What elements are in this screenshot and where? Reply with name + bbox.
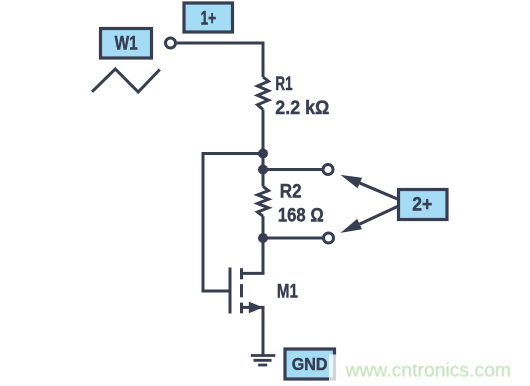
label box W1 (waveform generator) (101, 29, 152, 59)
label box 2+ (scope channel 2) (399, 190, 448, 220)
transistor M1: gate bar (229, 268, 232, 314)
label box 1+ (scope channel 1) (184, 3, 233, 32)
node B junction dot (258, 165, 268, 175)
resistor R1 (258, 77, 269, 110)
svg-text:GND: GND (292, 354, 328, 374)
watermark backing strip (329, 355, 530, 382)
wire: terminal 1+ to top of R1 (177, 43, 263, 77)
svg-text:168 Ω: 168 Ω (278, 204, 324, 226)
arrow: 2+ box to top terminal (360, 183, 398, 199)
waveform symbol (triangle wave) (92, 69, 160, 92)
svg-text:M1: M1 (277, 280, 298, 302)
wire: R2 to node C (262, 216, 265, 238)
svg-text:www.cntronics.com: www.cntronics.com (345, 360, 511, 382)
wire: R1 to node A (262, 110, 265, 154)
ground bar 3 (258, 364, 267, 367)
transistor M1: drain lead (242, 238, 264, 273)
node C junction dot (258, 233, 268, 243)
wire: node A to node B (262, 154, 265, 170)
transistor M1: source arrow (249, 302, 263, 314)
ground label box GND (285, 349, 335, 379)
transistor M1: channel dash 1 (240, 268, 243, 279)
wire: node C to terminal 2- (263, 237, 323, 240)
svg-text:2.2 kΩ: 2.2 kΩ (275, 97, 329, 119)
svg-text:1+: 1+ (201, 7, 217, 29)
terminal 2+ (top scope probe, open circle) (323, 165, 333, 175)
terminal 1+ (open circle) (166, 38, 176, 48)
terminal 2- (bottom scope probe, open circle) (324, 233, 334, 243)
wire: feedback branch node A to gate of M1 (203, 154, 263, 292)
svg-text:R2: R2 (280, 180, 302, 202)
svg-text:W1: W1 (115, 34, 138, 55)
wire: node B to terminal 2+ (263, 168, 323, 171)
transistor M1: channel dash 3 (240, 303, 243, 314)
transistor M1: source lead (242, 307, 264, 355)
svg-text:R1: R1 (275, 73, 292, 95)
ground bar 2 (254, 359, 272, 362)
arrow: 2+ box to bottom terminal (360, 207, 398, 225)
wire: node B to top of R2 (262, 170, 265, 187)
transistor M1: channel dash 2 (240, 284, 243, 297)
node A junction dot (258, 149, 268, 159)
resistor R2 (258, 187, 269, 217)
ground bar 1 (251, 354, 275, 357)
svg-text:2+: 2+ (412, 193, 432, 215)
